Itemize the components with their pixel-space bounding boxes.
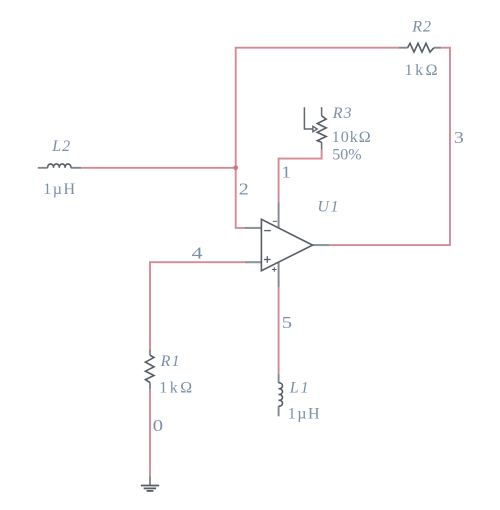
svg-text:4: 4 bbox=[192, 244, 204, 263]
svg-text:3: 3 bbox=[454, 128, 464, 147]
svg-text:50%: 50% bbox=[332, 146, 361, 163]
svg-text:10kΩ: 10kΩ bbox=[332, 129, 372, 146]
svg-text:L1: L1 bbox=[289, 379, 311, 396]
svg-text:5: 5 bbox=[282, 313, 293, 332]
svg-text:R2: R2 bbox=[411, 19, 432, 36]
svg-text:1µH: 1µH bbox=[288, 405, 321, 422]
svg-text:1kΩ: 1kΩ bbox=[159, 380, 194, 397]
svg-text:2: 2 bbox=[239, 180, 249, 199]
svg-text:1kΩ: 1kΩ bbox=[405, 62, 440, 79]
svg-text:R1: R1 bbox=[160, 353, 181, 370]
svg-text:1µH: 1µH bbox=[43, 181, 76, 198]
svg-text:L2: L2 bbox=[51, 138, 71, 155]
svg-text:1: 1 bbox=[281, 163, 291, 182]
svg-text:R3: R3 bbox=[332, 105, 353, 122]
svg-text:U1: U1 bbox=[317, 198, 340, 215]
svg-text:0: 0 bbox=[153, 416, 164, 435]
